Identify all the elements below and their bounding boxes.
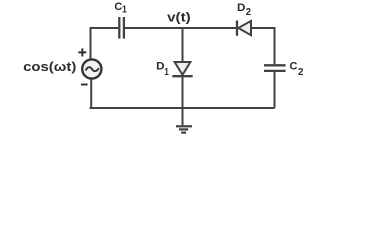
svg-text:2: 2 — [246, 6, 251, 18]
svg-text:2: 2 — [298, 66, 304, 78]
svg-text:v(t): v(t) — [167, 10, 191, 25]
svg-text:1: 1 — [164, 66, 169, 78]
svg-text:C: C — [290, 61, 298, 73]
svg-text:D: D — [237, 2, 245, 14]
svg-text:cos(ωt): cos(ωt) — [23, 60, 76, 74]
svg-text:1: 1 — [122, 4, 127, 16]
